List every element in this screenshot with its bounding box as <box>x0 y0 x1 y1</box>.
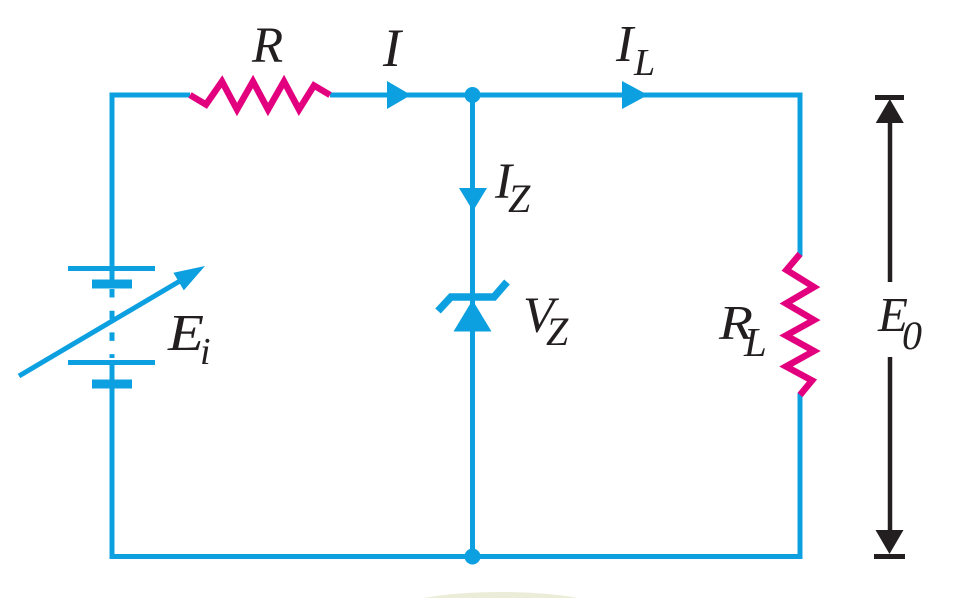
current arrow I <box>387 81 411 109</box>
svg-text:Z: Z <box>508 176 531 221</box>
node B (bottom junction) <box>465 549 481 565</box>
zener diode VZ cathode bar with wings <box>438 282 507 311</box>
svg-text:Z: Z <box>546 309 569 354</box>
current arrow IZ <box>459 188 487 211</box>
resistor RL <box>786 254 814 395</box>
resistor R <box>190 82 330 110</box>
E0 bottom arrow head <box>876 530 904 554</box>
battery Ei dashed cell link <box>110 289 115 358</box>
E0 upper line <box>888 122 893 282</box>
zener diode VZ anode triangle <box>454 300 492 332</box>
svg-text:0: 0 <box>902 313 922 358</box>
svg-text:I: I <box>615 16 636 73</box>
E0 top T-bar <box>875 95 904 100</box>
wire bottom U (left vertical lower, bottom rail, right vertical lower) <box>112 362 800 557</box>
wire top-right (from resistor R across top to RL branch, down to RL) <box>330 95 800 256</box>
svg-text:E: E <box>167 305 204 362</box>
svg-text:i: i <box>200 331 211 373</box>
svg-text:L: L <box>633 42 655 84</box>
svg-text:L: L <box>743 319 767 365</box>
battery Ei plate 2 (short thick) <box>92 280 132 289</box>
watermark <box>398 592 604 598</box>
battery Ei variable arrow line <box>19 278 185 376</box>
wire middle vertical (zener branch) <box>470 95 475 557</box>
battery Ei plate 4 (short thick) <box>92 380 132 389</box>
svg-text:R: R <box>251 18 283 74</box>
battery Ei variable arrow head <box>173 266 205 290</box>
E0 lower line <box>888 357 893 531</box>
E0 bottom T-bar <box>874 554 905 559</box>
svg-text:I: I <box>382 18 404 78</box>
wire top-left L (from Ei top plate up and across to resistor R) <box>112 95 190 284</box>
node A (top junction) <box>465 87 481 103</box>
battery Ei plate 1 (long thin) <box>68 266 155 271</box>
battery Ei plate 3 (long thin) <box>68 360 155 365</box>
current arrow IL <box>622 81 648 109</box>
E0 top arrow head <box>876 99 904 123</box>
